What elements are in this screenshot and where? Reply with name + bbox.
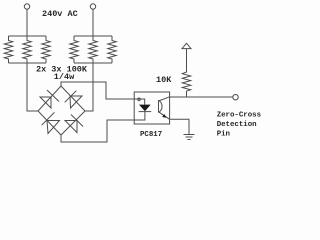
svg-text:240v AC: 240v AC xyxy=(42,9,78,19)
svg-text:Pin: Pin xyxy=(217,130,230,138)
svg-text:1/4w: 1/4w xyxy=(54,72,75,82)
svg-text:Zero-Cross: Zero-Cross xyxy=(217,112,261,120)
svg-text:PC817: PC817 xyxy=(140,131,162,139)
svg-text:Detection: Detection xyxy=(217,121,257,129)
svg-text:10K: 10K xyxy=(156,75,172,85)
